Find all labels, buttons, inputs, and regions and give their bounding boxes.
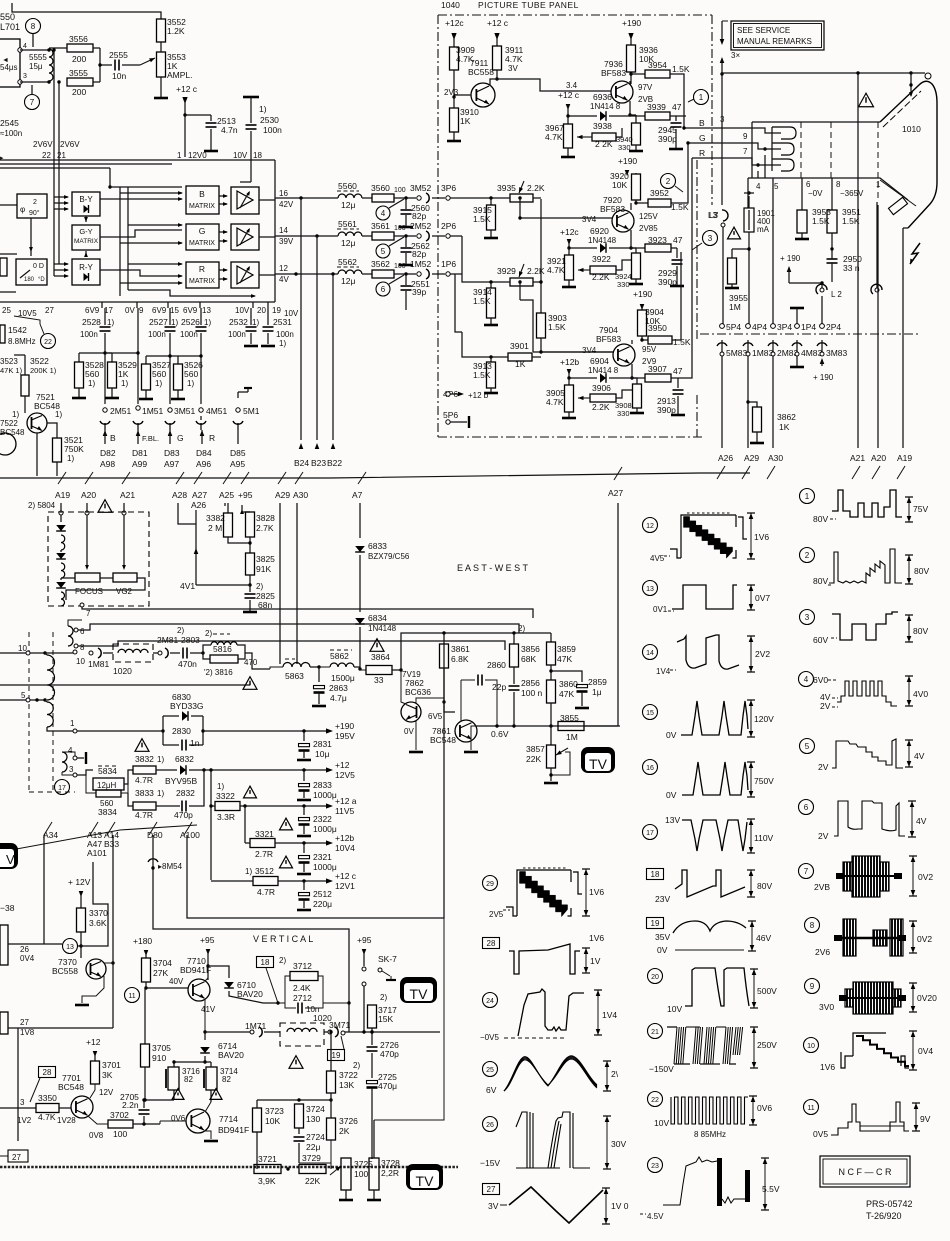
svg-text:39p: 39p xyxy=(412,287,426,297)
svg-text:8: 8 xyxy=(31,22,36,31)
circled 1 xyxy=(694,90,709,105)
svg-text:3556: 3556 xyxy=(69,34,88,44)
arrow up 3x xyxy=(720,57,725,63)
svg-text:1V8: 1V8 xyxy=(20,1028,35,1037)
primary winding lower xyxy=(47,702,53,727)
svg-text:+190: +190 xyxy=(622,18,641,28)
svg-text:MANUAL REMARKS: MANUAL REMARKS xyxy=(737,37,812,46)
svg-text:9: 9 xyxy=(810,982,815,991)
wire 7521 emitter xyxy=(36,433,38,476)
svg-text:12μH: 12μH xyxy=(97,781,117,790)
panel border bottom dash-dot xyxy=(438,436,705,438)
svg-text:1): 1) xyxy=(245,867,252,876)
capacitor 2562 82p xyxy=(405,236,407,247)
svg-text:1μ: 1μ xyxy=(592,687,602,697)
svg-text:0V5: 0V5 xyxy=(813,1129,828,1139)
svg-text:10K: 10K xyxy=(612,180,627,190)
svg-text:2712: 2712 xyxy=(293,993,312,1003)
box G MATRIX xyxy=(186,224,219,250)
TV icon left edge xyxy=(0,843,18,869)
svg-text:12μ: 12μ xyxy=(341,276,355,286)
svg-text:0 D: 0 D xyxy=(33,263,44,270)
wire A27 right vertical xyxy=(617,503,619,726)
see service manual remarks box xyxy=(731,21,824,50)
svg-text:560: 560 xyxy=(152,369,166,379)
svg-text:10V4: 10V4 xyxy=(335,843,355,853)
amp B xyxy=(231,187,259,214)
svg-text:A7: A7 xyxy=(352,490,363,500)
warning triangle vertical mid xyxy=(289,1056,303,1069)
svg-text:A30: A30 xyxy=(768,453,783,463)
svg-text:5863: 5863 xyxy=(285,671,304,681)
left edge vertical xyxy=(17,1028,19,1141)
collector 7920 xyxy=(630,203,632,210)
waveform 16 pulses xyxy=(643,760,658,775)
svg-text:330: 330 xyxy=(618,143,631,152)
svg-text:28: 28 xyxy=(43,1068,52,1077)
svg-text:A20: A20 xyxy=(81,490,96,500)
svg-text:PICTURE TUBE PANEL: PICTURE TUBE PANEL xyxy=(478,0,579,10)
svg-text:1V6: 1V6 xyxy=(589,933,604,943)
vert wires between demods xyxy=(53,160,55,276)
connector 2M51 xyxy=(103,408,107,412)
wires matrix to amps xyxy=(219,195,227,197)
waveform 26 flyback xyxy=(483,1117,498,1132)
svg-text:3954: 3954 xyxy=(648,60,667,70)
A labels left set xyxy=(58,472,66,484)
svg-text:10: 10 xyxy=(807,1043,815,1050)
svg-text:3350: 3350 xyxy=(38,1093,57,1103)
svg-text:2P6: 2P6 xyxy=(441,221,456,231)
svg-text:27: 27 xyxy=(487,1185,496,1194)
svg-text:33 n: 33 n xyxy=(843,263,860,273)
wires from left edge xyxy=(0,163,172,165)
pin circle 8 xyxy=(26,19,41,34)
svg-text:1V4: 1V4 xyxy=(656,667,671,676)
svg-text:1.5K: 1.5K xyxy=(473,370,491,380)
wire top rail xyxy=(12,3,161,19)
svg-text:12V1: 12V1 xyxy=(335,881,355,891)
wire 3716 3714 bottom join xyxy=(174,1100,211,1102)
svg-text:BYD33G: BYD33G xyxy=(170,701,204,711)
waveform 11 xyxy=(804,1100,819,1115)
svg-text:3724: 3724 xyxy=(306,1104,325,1114)
+12c arrow xyxy=(326,878,333,883)
svg-text:110V: 110V xyxy=(754,833,774,843)
box B-Y demodulator xyxy=(72,192,100,216)
svg-text:3321: 3321 xyxy=(255,829,274,839)
svg-text:6920: 6920 xyxy=(590,226,609,236)
svg-text:0V7: 0V7 xyxy=(755,593,770,603)
svg-text:750V: 750V xyxy=(754,776,774,786)
svg-text:13: 13 xyxy=(66,944,74,951)
wires M83 down xyxy=(721,356,723,448)
circled 17 xyxy=(55,780,70,795)
svg-text:125V: 125V xyxy=(639,212,658,221)
flyback core dashed lower xyxy=(28,632,30,792)
warning triangle fuse xyxy=(728,227,741,239)
svg-text:19: 19 xyxy=(332,1051,341,1060)
svg-text:7: 7 xyxy=(86,609,91,618)
svg-text:1N414 8: 1N414 8 xyxy=(588,366,619,375)
svg-text:−15V: −15V xyxy=(480,1158,500,1168)
svg-text:12: 12 xyxy=(646,523,654,530)
svg-text:3561: 3561 xyxy=(371,221,390,231)
svg-text:5560: 5560 xyxy=(338,181,357,191)
svg-text:1.5K: 1.5K xyxy=(842,216,860,226)
wire D80 to vertical net xyxy=(153,872,349,1003)
svg-text:6936: 6936 xyxy=(593,92,612,102)
svg-text:3P6: 3P6 xyxy=(441,183,456,193)
svg-text:2): 2) xyxy=(380,993,387,1002)
wire 3705 to 3716 row xyxy=(145,1099,174,1101)
svg-text:2526: 2526 xyxy=(181,317,200,327)
svg-text:3828: 3828 xyxy=(256,513,275,523)
svg-text:A21: A21 xyxy=(850,453,865,463)
svg-text:1): 1) xyxy=(67,454,74,463)
vertical wire 18 to B matrix xyxy=(250,160,252,182)
svg-text:+ 190: + 190 xyxy=(780,254,801,263)
svg-text:5816: 5816 xyxy=(213,644,232,654)
svg-text:3: 3 xyxy=(23,73,27,80)
svg-text:12V: 12V xyxy=(99,1088,114,1097)
svg-text:BC558: BC558 xyxy=(468,67,494,77)
circled 5 xyxy=(376,244,390,258)
supply arrow +190 195V xyxy=(326,728,333,733)
svg-text:10K: 10K xyxy=(265,1116,280,1126)
svg-text:1): 1) xyxy=(217,782,224,791)
svg-text:BC558: BC558 xyxy=(52,966,78,976)
svg-text:3M83: 3M83 xyxy=(826,348,848,358)
svg-text:910: 910 xyxy=(152,1053,166,1063)
svg-text:6: 6 xyxy=(80,627,85,636)
wire A34 down xyxy=(43,835,45,944)
svg-text:A19: A19 xyxy=(55,490,70,500)
svg-text:D82: D82 xyxy=(100,448,116,458)
svg-text:22μ: 22μ xyxy=(306,1142,320,1152)
waveform 23 xyxy=(648,1158,663,1173)
svg-text:3.6K: 3.6K xyxy=(89,918,107,928)
svg-text:10V: 10V xyxy=(654,1118,669,1128)
svg-text:2V85: 2V85 xyxy=(639,224,658,233)
dash-dot separator row xyxy=(700,333,920,335)
wire SK7 down xyxy=(362,982,366,986)
svg-text:47K: 47K xyxy=(559,689,574,699)
coil 1020 vertical xyxy=(280,1023,324,1046)
svg-text:2\: 2\ xyxy=(611,1069,619,1079)
svg-text:1V 0: 1V 0 xyxy=(611,1201,629,1211)
vertical wire right of VERTICAL box xyxy=(374,918,444,1120)
wire 2V6V-22 vertical xyxy=(53,50,55,160)
pot FOCUS xyxy=(75,573,100,582)
svg-text:3.3R: 3.3R xyxy=(217,812,235,822)
svg-text:6V: 6V xyxy=(486,1085,497,1095)
circled 3 pointer xyxy=(703,231,718,246)
label box NCF-CR xyxy=(820,1156,910,1187)
waveform 5 xyxy=(800,739,815,754)
svg-text:14: 14 xyxy=(646,650,654,657)
supply +190 3M83 xyxy=(820,358,825,364)
svg-text:6.8K: 6.8K xyxy=(451,654,469,664)
svg-text:82: 82 xyxy=(184,1075,193,1084)
svg-text:2): 2) xyxy=(353,1061,360,1070)
svg-text:13K: 13K xyxy=(339,1080,354,1090)
svg-text:2.2n: 2.2n xyxy=(122,1100,139,1110)
svg-text:18: 18 xyxy=(651,870,660,879)
svg-text:1M: 1M xyxy=(566,732,578,742)
connector 3M51 xyxy=(168,408,172,412)
svg-text:G-Y: G-Y xyxy=(79,227,92,236)
svg-text:7714: 7714 xyxy=(219,1114,238,1124)
waveform 14 sawtooth xyxy=(643,645,658,660)
svg-text:18: 18 xyxy=(253,151,262,160)
wire 3929 to base 7904 xyxy=(519,282,521,300)
svg-text:6: 6 xyxy=(804,803,809,812)
svg-text:0V6: 0V6 xyxy=(757,1103,772,1113)
pin circle 7 xyxy=(25,95,40,110)
svg-text:13: 13 xyxy=(646,586,654,593)
svg-text:97V: 97V xyxy=(638,83,653,92)
svg-text:3701: 3701 xyxy=(102,1060,121,1070)
svg-text:10n: 10n xyxy=(112,71,126,81)
svg-text:10V: 10V xyxy=(233,151,248,160)
svg-text:1000μ: 1000μ xyxy=(313,824,337,834)
svg-text:100n: 100n xyxy=(80,330,98,339)
svg-text:A96: A96 xyxy=(196,459,211,469)
svg-text:16: 16 xyxy=(646,765,654,772)
svg-text:100: 100 xyxy=(394,187,406,194)
svg-text:VG2: VG2 xyxy=(116,587,133,596)
left edge box upper xyxy=(0,925,8,965)
svg-text:3: 3 xyxy=(69,765,74,774)
svg-text:F.BL.: F.BL. xyxy=(142,434,159,443)
svg-text:BYV95B: BYV95B xyxy=(165,776,197,786)
svg-text:1: 1 xyxy=(805,492,810,501)
svg-text:5: 5 xyxy=(774,182,779,191)
svg-text:120V: 120V xyxy=(754,714,774,724)
svg-text:100: 100 xyxy=(394,225,406,232)
svg-text:1K: 1K xyxy=(779,422,790,432)
svg-text:R: R xyxy=(199,264,205,274)
amp R xyxy=(231,262,259,288)
svg-text:3929: 3929 xyxy=(497,266,516,276)
svg-text:3857: 3857 xyxy=(526,744,545,754)
svg-text:47: 47 xyxy=(673,235,683,245)
svg-text:A20: A20 xyxy=(871,453,886,463)
svg-text:B23: B23 xyxy=(311,458,326,468)
svg-text:15K: 15K xyxy=(378,1014,393,1024)
winding 4-3 xyxy=(62,752,67,772)
svg-text:1542: 1542 xyxy=(8,325,27,335)
svg-text:AMPL.: AMPL. xyxy=(167,70,193,80)
junction R row xyxy=(294,272,297,275)
wire 7862 emitter collector xyxy=(416,698,444,703)
svg-text:2 M: 2 M xyxy=(208,523,222,533)
waveform 8 blobs xyxy=(805,918,820,933)
svg-text:A26: A26 xyxy=(718,453,733,463)
svg-text:2.2K: 2.2K xyxy=(527,266,545,276)
svg-text:1): 1) xyxy=(187,379,194,388)
svg-text:B: B xyxy=(199,189,205,199)
wire 2V6V-21 vertical xyxy=(58,82,60,160)
wire 7701 collector to 3701 xyxy=(88,1090,95,1098)
svg-text:3: 3 xyxy=(805,613,810,622)
svg-text:1V: 1V xyxy=(590,956,601,966)
wire pin6 down xyxy=(801,178,803,210)
svg-text:TV: TV xyxy=(416,1173,435,1189)
svg-text:9: 9 xyxy=(139,306,144,315)
svg-text:+12 b: +12 b xyxy=(468,391,489,400)
svg-text:4V: 4V xyxy=(914,751,925,761)
svg-text:1): 1) xyxy=(259,104,267,114)
wire base row 7701 xyxy=(0,1107,36,1109)
svg-text:100 n: 100 n xyxy=(521,688,543,698)
svg-text:4V5: 4V5 xyxy=(650,554,665,563)
svg-text:3864: 3864 xyxy=(371,652,390,662)
arrows into B-Y xyxy=(54,196,68,198)
svg-text:5: 5 xyxy=(21,691,26,700)
svg-text:1M51: 1M51 xyxy=(142,406,164,416)
svg-text:1): 1) xyxy=(157,789,164,798)
wire A29 down xyxy=(279,503,281,664)
svg-text:2530: 2530 xyxy=(260,115,279,125)
svg-text:22K: 22K xyxy=(526,754,541,764)
svg-text:3V4: 3V4 xyxy=(582,346,597,355)
svg-text:4: 4 xyxy=(804,675,809,684)
svg-text:A30: A30 xyxy=(293,490,308,500)
svg-text:47: 47 xyxy=(673,366,683,376)
svg-text:φ: φ xyxy=(20,205,25,214)
svg-text:1V6: 1V6 xyxy=(820,1062,835,1072)
svg-text:V: V xyxy=(6,852,15,867)
wires pots xyxy=(61,577,75,579)
wire to cap 2555 xyxy=(99,48,101,82)
svg-text:11: 11 xyxy=(128,993,135,1000)
svg-text:750K: 750K xyxy=(64,444,84,454)
svg-text:A27: A27 xyxy=(192,490,207,500)
wiper arrow 3725 xyxy=(330,1166,341,1175)
waveform 29 staircase xyxy=(483,876,498,891)
svg-text:2528: 2528 xyxy=(82,317,101,327)
wire x211 down xyxy=(210,770,212,880)
svg-text:2.7K: 2.7K xyxy=(256,523,274,533)
svg-text:2.7R: 2.7R xyxy=(255,849,273,859)
svg-text:1): 1) xyxy=(12,410,19,419)
svg-text:7: 7 xyxy=(804,867,809,876)
svg-text:D81: D81 xyxy=(132,448,148,458)
svg-text:3725: 3725 xyxy=(354,1159,373,1169)
svg-text:220μ: 220μ xyxy=(313,899,332,909)
svg-text:A34: A34 xyxy=(43,830,58,840)
svg-text:2P4: 2P4 xyxy=(826,322,841,332)
svg-text:2V5: 2V5 xyxy=(489,910,504,919)
wire pin7 right xyxy=(82,607,533,618)
svg-text:5: 5 xyxy=(805,742,810,751)
wire 7710 collector xyxy=(205,978,208,981)
warning triangle 3832 xyxy=(135,739,149,752)
svg-text:4.7R: 4.7R xyxy=(257,887,275,897)
svg-text:20: 20 xyxy=(257,306,266,315)
svg-text:4.7μ: 4.7μ xyxy=(330,693,347,703)
svg-text:26: 26 xyxy=(20,945,29,954)
svg-text:G: G xyxy=(199,226,206,236)
svg-text:3722: 3722 xyxy=(339,1070,358,1080)
svg-text:3M51: 3M51 xyxy=(174,406,196,416)
svg-text:1: 1 xyxy=(70,719,75,728)
svg-text:▸8M54: ▸8M54 xyxy=(158,862,183,871)
rail 1100 xyxy=(257,1099,331,1101)
svg-text:21: 21 xyxy=(57,151,66,160)
svg-text:60V: 60V xyxy=(813,635,828,645)
svg-text:1000μ: 1000μ xyxy=(313,862,337,872)
svg-text:D80: D80 xyxy=(147,830,163,840)
svg-text:100n: 100n xyxy=(276,330,294,339)
svg-text:26: 26 xyxy=(486,1122,494,1129)
svg-text:2.2K: 2.2K xyxy=(527,183,545,193)
svg-text:1M52: 1M52 xyxy=(410,259,432,269)
svg-text:D85: D85 xyxy=(230,448,246,458)
svg-text:2: 2 xyxy=(805,551,810,560)
svg-text:100: 100 xyxy=(394,263,406,270)
svg-text:7: 7 xyxy=(30,98,35,107)
svg-text:D84: D84 xyxy=(196,448,212,458)
svg-text:4P4: 4P4 xyxy=(752,322,767,332)
svg-text:1P4: 1P4 xyxy=(801,322,816,332)
waveform 27 triangle xyxy=(483,1184,500,1195)
IC box bottom edge xyxy=(0,301,275,303)
vertical wire B to B24 xyxy=(299,196,302,199)
svg-text:0V20: 0V20 xyxy=(917,993,937,1003)
svg-text:3938: 3938 xyxy=(593,121,612,131)
svg-text:13V: 13V xyxy=(665,815,680,825)
svg-text:30V: 30V xyxy=(611,1139,626,1149)
waveform 19 humps xyxy=(647,918,664,929)
svg-text:470: 470 xyxy=(244,658,258,667)
svg-text:27: 27 xyxy=(20,1018,29,1027)
svg-text:+12 c: +12 c xyxy=(558,90,580,100)
svg-text:BC548: BC548 xyxy=(58,1082,84,1092)
waveform 4 xyxy=(799,672,814,687)
svg-text:0V4: 0V4 xyxy=(918,1046,933,1056)
tv icon east-west xyxy=(581,747,615,773)
capacitor 2551 39p xyxy=(405,274,407,285)
svg-text:27: 27 xyxy=(45,306,54,315)
svg-text:BAV20: BAV20 xyxy=(237,989,263,999)
svg-text:TV: TV xyxy=(410,986,429,1002)
svg-text:200: 200 xyxy=(72,54,86,64)
svg-text:4.5V: 4.5V xyxy=(647,1212,664,1221)
svg-text:L 2: L 2 xyxy=(831,290,842,299)
svg-text:3.4: 3.4 xyxy=(566,81,578,90)
svg-text:3935: 3935 xyxy=(497,183,516,193)
svg-text:4.7K: 4.7K xyxy=(546,397,564,407)
svg-text:°D: °D xyxy=(38,277,45,283)
pin wires down xyxy=(764,155,766,178)
svg-text:3322: 3322 xyxy=(216,791,235,801)
luma wires vertical xyxy=(119,187,121,296)
svg-text:2M51: 2M51 xyxy=(110,406,132,416)
+12b arrow xyxy=(326,840,333,845)
capacitor 2560 82p xyxy=(405,198,407,209)
svg-text:330: 330 xyxy=(617,409,630,418)
boxed 27 left edge xyxy=(0,1155,8,1157)
svg-text:mA: mA xyxy=(757,225,770,234)
svg-text:14: 14 xyxy=(279,226,288,235)
junction +12 rail xyxy=(209,768,212,771)
arrows B24 B23 B22 xyxy=(299,443,304,449)
wire A27/A26 down xyxy=(195,510,197,585)
svg-text:1V6: 1V6 xyxy=(754,532,769,542)
